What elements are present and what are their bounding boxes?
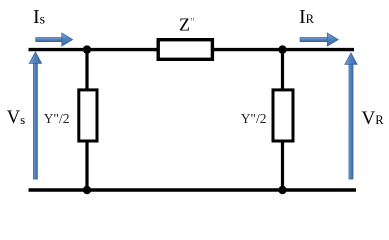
svg-text:Vs: Vs — [7, 108, 25, 128]
svg-text:Z": Z" — [179, 14, 195, 34]
arrow IR (current, receiving end) — [300, 33, 338, 46]
wire bottom — [29, 188, 357, 191]
arrow VR (voltage, receiving end) — [345, 53, 357, 179]
admittance Y'/2 right shunt box — [273, 90, 293, 141]
admittance Y'/2 left shunt box — [79, 90, 97, 141]
impedance Z" series box — [158, 40, 212, 60]
svg-text:IR: IR — [299, 6, 315, 28]
svg-text:VR: VR — [362, 108, 385, 129]
wire top-left segment — [29, 48, 159, 51]
svg-text:Is: Is — [33, 6, 45, 28]
wire right shunt vertical — [281, 50, 284, 190]
junction dot bottom-right — [278, 186, 286, 194]
svg-text:Y"/2: Y"/2 — [44, 111, 70, 126]
wire left shunt vertical — [85, 50, 88, 190]
junction dot top-left — [83, 45, 91, 53]
svg-text:Y"/2: Y"/2 — [241, 111, 267, 126]
junction dot top-right — [278, 45, 286, 53]
junction dot bottom-left — [83, 186, 91, 194]
arrow Is (current, sending end) — [36, 33, 73, 46]
wire top-right segment — [213, 48, 354, 51]
arrow Vs (voltage, sending end) — [29, 52, 41, 179]
